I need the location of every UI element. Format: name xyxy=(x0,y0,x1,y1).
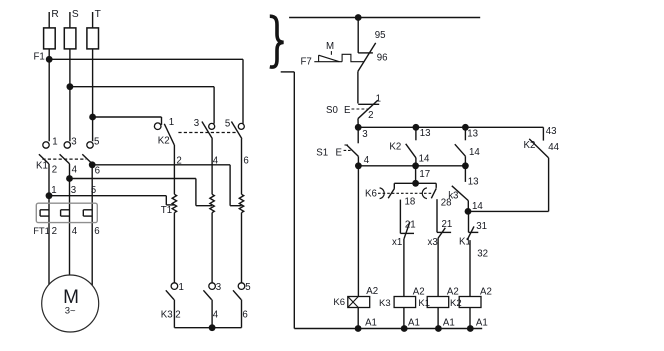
svg-text:4: 4 xyxy=(364,155,370,166)
svg-text:S: S xyxy=(72,9,79,20)
svg-text:2: 2 xyxy=(175,309,180,320)
svg-text:A2: A2 xyxy=(366,286,378,297)
svg-text:95: 95 xyxy=(375,30,386,41)
svg-text:R: R xyxy=(51,9,58,20)
svg-text:1: 1 xyxy=(179,282,184,293)
svg-text:A1: A1 xyxy=(408,318,420,329)
svg-text:S0: S0 xyxy=(326,105,338,116)
svg-text:A2: A2 xyxy=(413,287,425,298)
svg-text:k3: k3 xyxy=(448,191,458,202)
svg-text:E: E xyxy=(344,105,351,116)
svg-text:K2: K2 xyxy=(158,135,170,146)
svg-text:A2: A2 xyxy=(480,287,492,298)
svg-text:3: 3 xyxy=(71,185,76,196)
svg-text:3: 3 xyxy=(216,282,221,293)
svg-text:13: 13 xyxy=(467,128,478,139)
svg-text:1: 1 xyxy=(51,185,56,196)
svg-text:2: 2 xyxy=(368,110,373,121)
svg-text:1: 1 xyxy=(52,136,57,147)
svg-text:4: 4 xyxy=(72,165,78,176)
svg-text:43: 43 xyxy=(546,126,557,137)
svg-text:13: 13 xyxy=(468,177,479,188)
svg-text:96: 96 xyxy=(377,53,388,64)
svg-text:A2: A2 xyxy=(447,287,459,298)
svg-text:K6: K6 xyxy=(333,297,345,308)
svg-text:44: 44 xyxy=(548,142,559,153)
svg-text:2: 2 xyxy=(52,226,57,237)
svg-text:K3: K3 xyxy=(161,309,173,320)
svg-text:5: 5 xyxy=(245,282,250,293)
svg-text:M: M xyxy=(326,41,334,52)
svg-text:K2: K2 xyxy=(450,298,462,309)
svg-text:1: 1 xyxy=(169,117,174,128)
svg-text:14: 14 xyxy=(469,147,480,158)
svg-text:K6: K6 xyxy=(365,189,377,200)
svg-text:E: E xyxy=(336,147,343,158)
svg-text:S1: S1 xyxy=(316,147,328,158)
svg-text:4: 4 xyxy=(213,156,219,167)
svg-text:A1: A1 xyxy=(476,318,488,329)
svg-text:5: 5 xyxy=(91,185,96,196)
svg-text:K1: K1 xyxy=(418,298,430,309)
svg-text:K1: K1 xyxy=(36,161,48,172)
svg-text:5: 5 xyxy=(94,136,99,147)
svg-text:14: 14 xyxy=(419,153,430,164)
svg-text:2: 2 xyxy=(176,156,181,167)
svg-text:21: 21 xyxy=(442,219,453,230)
svg-text:18: 18 xyxy=(405,197,416,208)
svg-text:4: 4 xyxy=(213,309,219,320)
svg-text:F1: F1 xyxy=(34,52,45,63)
svg-text:14: 14 xyxy=(472,201,483,212)
svg-text:6: 6 xyxy=(94,226,99,237)
svg-text:2: 2 xyxy=(52,165,57,176)
svg-text:3~: 3~ xyxy=(65,306,76,317)
svg-text:x3: x3 xyxy=(428,237,438,248)
svg-text:4: 4 xyxy=(72,226,78,237)
svg-text:13: 13 xyxy=(420,128,431,139)
svg-text:32: 32 xyxy=(477,248,488,259)
svg-text:6: 6 xyxy=(95,165,100,176)
svg-text:A1: A1 xyxy=(365,318,377,329)
svg-text:A1: A1 xyxy=(443,318,455,329)
svg-text:F7: F7 xyxy=(301,56,312,67)
svg-text:17: 17 xyxy=(419,169,430,180)
svg-text:5: 5 xyxy=(225,118,230,129)
svg-text:3: 3 xyxy=(71,136,76,147)
svg-text:1: 1 xyxy=(376,94,381,105)
svg-text:6: 6 xyxy=(242,309,247,320)
svg-text:K2: K2 xyxy=(389,141,401,152)
svg-text:3: 3 xyxy=(194,118,199,129)
svg-text:T: T xyxy=(95,9,101,20)
svg-text:21: 21 xyxy=(405,219,416,230)
svg-text:K3: K3 xyxy=(379,298,391,309)
svg-text:31: 31 xyxy=(476,221,487,232)
svg-text:T1: T1 xyxy=(161,205,172,216)
svg-text:3: 3 xyxy=(362,129,367,140)
svg-text:6: 6 xyxy=(243,156,248,167)
svg-text:K2: K2 xyxy=(524,140,536,151)
svg-text:x1: x1 xyxy=(392,237,402,248)
svg-text:K1: K1 xyxy=(459,236,471,247)
svg-text:FT1: FT1 xyxy=(33,225,50,236)
